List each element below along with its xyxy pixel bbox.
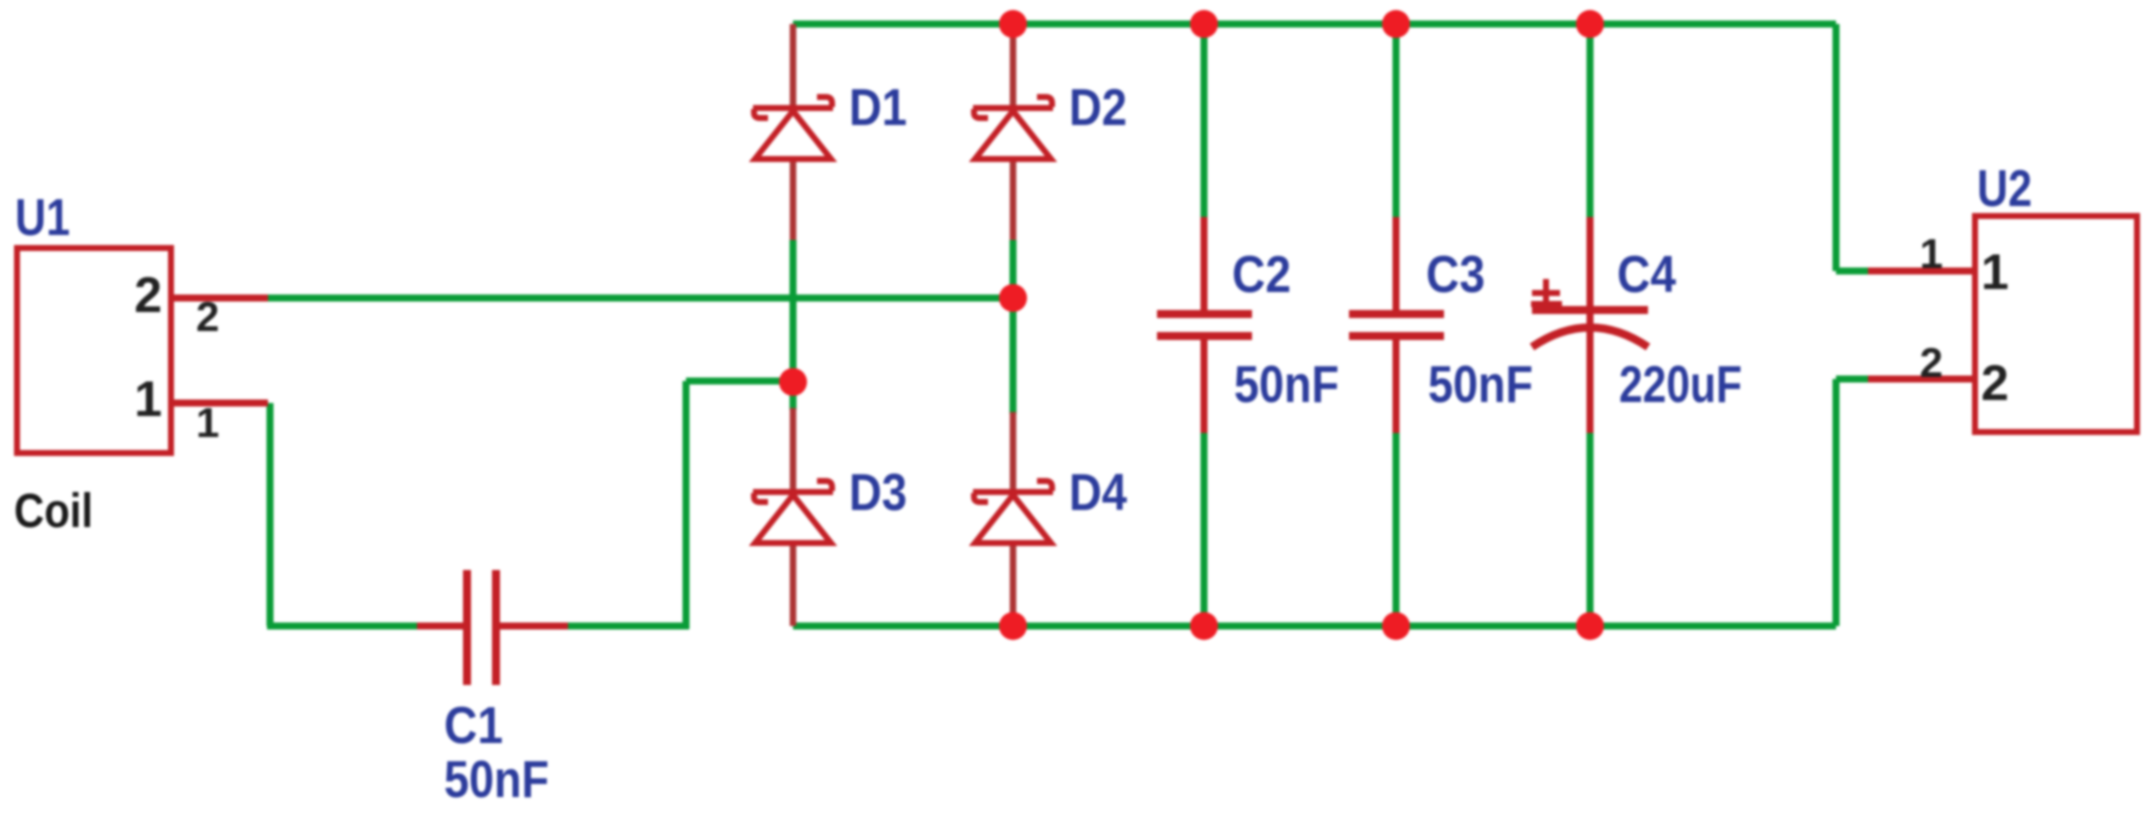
svg-text:Coil: Coil xyxy=(14,485,93,538)
wire C4 column xyxy=(1587,24,1594,626)
svg-text:2: 2 xyxy=(1920,339,1943,386)
svg-text:2: 2 xyxy=(196,293,219,340)
C4 plus sign xyxy=(1531,279,1562,304)
wire U1 pin1 down xyxy=(267,403,274,626)
svg-text:U2: U2 xyxy=(1977,160,2032,218)
svg-text:D3: D3 xyxy=(849,464,907,522)
diode D2 xyxy=(973,24,1053,240)
svg-text:220uF: 220uF xyxy=(1619,356,1742,414)
wire U1 pin2 to bridge node xyxy=(268,295,1013,302)
wire D1-D3 column mid xyxy=(790,240,797,410)
wire U1 pin1 bottom horizontal xyxy=(267,623,420,630)
wire right vertical upper xyxy=(1833,24,1840,271)
svg-text:1: 1 xyxy=(1981,244,2009,300)
wire top bus xyxy=(793,21,1836,28)
junction dot bottom C3 xyxy=(1382,612,1410,640)
diode D4 xyxy=(973,412,1053,626)
capacitor C4 polarized xyxy=(1532,217,1648,433)
junction dot bottom C4 xyxy=(1576,612,1604,640)
svg-text:U1: U1 xyxy=(15,189,70,247)
U1 pin 1 lead xyxy=(171,400,268,407)
wire U2 pin1 stub xyxy=(1836,268,1874,275)
junction dot top C4 xyxy=(1576,10,1604,38)
svg-text:D1: D1 xyxy=(849,79,907,137)
svg-text:1: 1 xyxy=(1920,230,1943,277)
svg-text:C1: C1 xyxy=(444,697,503,755)
junction dot node AC1 xyxy=(779,368,807,396)
wire C2 column xyxy=(1201,24,1208,626)
capacitor C3 xyxy=(1349,217,1444,433)
U2 pin 2 lead xyxy=(1868,376,1975,383)
wire jog vertical xyxy=(683,381,690,629)
capacitor C1 xyxy=(417,570,568,685)
wire U2 pin2 stub xyxy=(1836,376,1874,383)
svg-text:2: 2 xyxy=(1981,355,2009,411)
junction dot top D2 xyxy=(999,10,1027,38)
wire right vertical lower xyxy=(1833,379,1840,626)
diode D3 xyxy=(753,408,833,626)
connector U1 xyxy=(17,248,171,453)
junction dot node AC2 xyxy=(999,284,1027,312)
svg-text:2: 2 xyxy=(134,267,162,323)
svg-text:C4: C4 xyxy=(1617,246,1676,304)
svg-text:50nF: 50nF xyxy=(444,751,549,809)
diode D1 xyxy=(753,24,833,240)
junction dot top C3 xyxy=(1382,10,1410,38)
wire bottom bus xyxy=(793,623,1836,630)
wire C1 right xyxy=(566,623,689,630)
U2 pin 1 lead xyxy=(1868,268,1975,275)
wire D2-D4 column mid xyxy=(1010,240,1017,414)
svg-text:D2: D2 xyxy=(1069,79,1127,137)
svg-text:C3: C3 xyxy=(1426,246,1485,304)
svg-text:1: 1 xyxy=(134,371,162,427)
connector U2 xyxy=(1975,216,2137,432)
junction dot bottom C2 xyxy=(1190,612,1218,640)
svg-text:D4: D4 xyxy=(1069,464,1127,522)
svg-text:1: 1 xyxy=(196,399,219,446)
svg-text:50nF: 50nF xyxy=(1428,356,1533,414)
wire jog horizontal to node xyxy=(686,378,793,385)
svg-text:C2: C2 xyxy=(1232,246,1291,304)
U1 pin 2 lead xyxy=(171,295,268,302)
junction dot bottom D4 xyxy=(999,612,1027,640)
wire C3 column xyxy=(1393,24,1400,626)
capacitor C2 xyxy=(1157,217,1252,433)
svg-text:50nF: 50nF xyxy=(1234,356,1339,414)
junction dot top C2 xyxy=(1190,10,1218,38)
